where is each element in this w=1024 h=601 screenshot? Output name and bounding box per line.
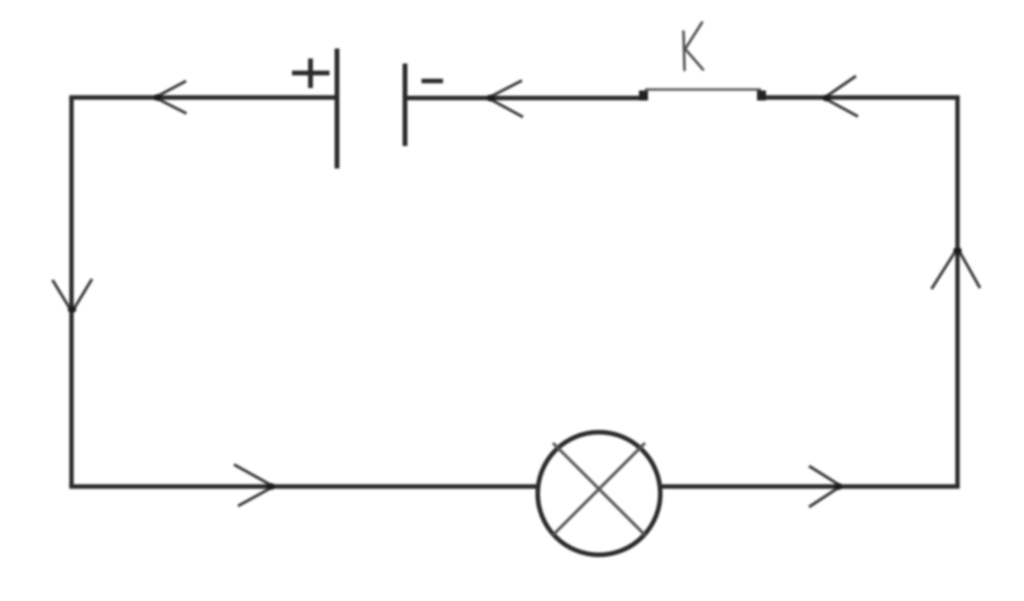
wire top segment (battery - to switch) (405, 96, 644, 100)
label - (negative terminal) (422, 79, 444, 83)
wire top segment (left corner to battery +) (69, 95, 337, 99)
current arrow (top wire, right of switch, pointing left) (822, 76, 858, 117)
switch K blade (closed) (645, 88, 761, 90)
label + (positive terminal) (292, 59, 330, 89)
current arrow (left wire, pointing down) (53, 279, 93, 313)
lamp X diagonal 2 (553, 443, 645, 535)
label K (684, 23, 704, 71)
current arrow (top wire, left, pointing left) (153, 81, 186, 114)
current arrow (bottom wire, right of lamp, pointing right) (809, 466, 843, 507)
wire right vertical (955, 98, 959, 487)
lamp X diagonal 1 (553, 443, 645, 535)
current arrow (top wire, after battery, pointing left) (486, 81, 523, 118)
switch K contact right (757, 91, 766, 101)
battery cell (negative short plate) (403, 64, 408, 147)
wire bottom segment (lamp to right corner) (660, 484, 960, 488)
wire bottom segment (left corner to lamp) (69, 484, 538, 488)
current arrow (right wire, pointing up) (932, 247, 981, 289)
current arrow (bottom wire, left of lamp, pointing right) (234, 465, 275, 507)
battery cell (positive long plate) (335, 49, 340, 169)
wire top segment (switch to right corner) (762, 95, 960, 99)
wire left vertical (69, 98, 73, 487)
switch K contact left (639, 91, 648, 101)
lamp L (circle) (538, 432, 661, 555)
